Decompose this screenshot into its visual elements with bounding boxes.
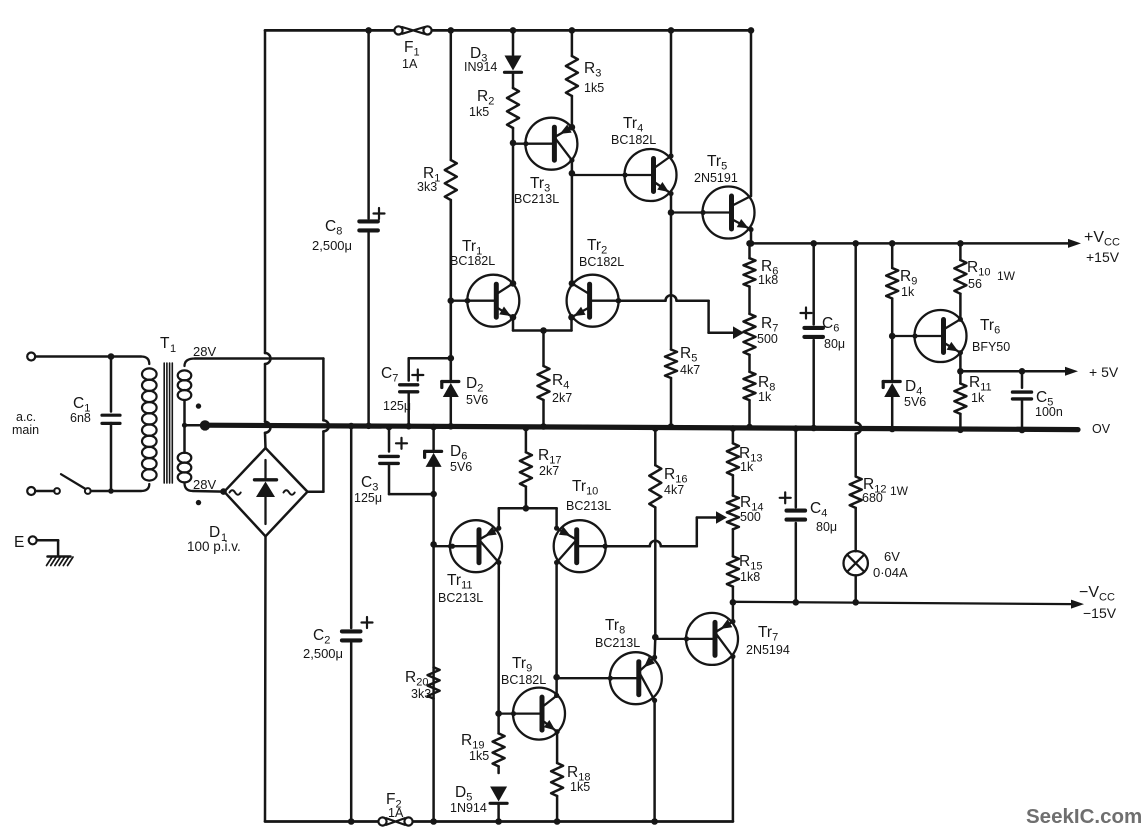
svg-text:2N5191: 2N5191 [694, 171, 738, 185]
svg-text:100n: 100n [1035, 405, 1063, 419]
svg-text:T: T [160, 335, 170, 352]
svg-text:4k7: 4k7 [680, 363, 700, 377]
svg-text:6n8: 6n8 [70, 411, 91, 425]
svg-text:1N914: 1N914 [450, 801, 487, 815]
svg-text:E: E [14, 534, 24, 551]
svg-text:5V6: 5V6 [450, 460, 472, 474]
svg-text:BC182L: BC182L [579, 255, 624, 269]
svg-text:BC213L: BC213L [514, 192, 559, 206]
svg-text:+15V: +15V [1086, 249, 1120, 265]
svg-text:IN914: IN914 [464, 60, 497, 74]
svg-text:500: 500 [740, 510, 761, 524]
svg-text:2,500μ: 2,500μ [303, 646, 343, 661]
svg-text:3k3: 3k3 [417, 180, 437, 194]
svg-text:−15V: −15V [1083, 605, 1117, 621]
svg-text:28V: 28V [193, 477, 216, 492]
svg-text:6V: 6V [884, 549, 900, 564]
svg-text:1k8: 1k8 [740, 570, 760, 584]
svg-text:BFY50: BFY50 [972, 340, 1010, 354]
svg-text:1k5: 1k5 [469, 749, 489, 763]
svg-text:+ 5V: + 5V [1089, 364, 1119, 380]
svg-text:1k5: 1k5 [570, 780, 590, 794]
svg-text:2k7: 2k7 [539, 464, 559, 478]
svg-text:125μ: 125μ [383, 399, 411, 413]
svg-text:OV: OV [1092, 422, 1111, 436]
svg-text:1W: 1W [997, 269, 1016, 283]
svg-text:1A: 1A [388, 806, 404, 820]
svg-text:3k3: 3k3 [411, 687, 431, 701]
svg-text:5V6: 5V6 [466, 393, 488, 407]
svg-text:2N5194: 2N5194 [746, 643, 790, 657]
svg-text:1k5: 1k5 [584, 81, 604, 95]
svg-text:1k: 1k [740, 460, 754, 474]
svg-text:56: 56 [968, 277, 982, 291]
svg-text:28V: 28V [193, 344, 216, 359]
svg-text:a.c.: a.c. [16, 410, 36, 424]
svg-text:1W: 1W [890, 484, 909, 498]
svg-text:BC182L: BC182L [611, 133, 656, 147]
svg-text:BC182L: BC182L [501, 673, 546, 687]
svg-text:2k7: 2k7 [552, 391, 572, 405]
svg-text:5V6: 5V6 [904, 395, 926, 409]
svg-text:1A: 1A [402, 57, 418, 71]
svg-text:1k8: 1k8 [758, 273, 778, 287]
svg-text:1k: 1k [758, 390, 772, 404]
svg-text:1k: 1k [901, 285, 915, 299]
svg-text:BC213L: BC213L [438, 591, 483, 605]
svg-text:main: main [12, 423, 39, 437]
svg-text:BC182L: BC182L [450, 254, 495, 268]
svg-text:BC213L: BC213L [566, 499, 611, 513]
svg-text:500: 500 [757, 332, 778, 346]
svg-text:80μ: 80μ [816, 520, 837, 534]
svg-text:SeekIC.com: SeekIC.com [1026, 805, 1142, 828]
svg-text:0·04A: 0·04A [873, 565, 908, 580]
svg-text:4k7: 4k7 [664, 483, 684, 497]
svg-text:125μ: 125μ [354, 491, 382, 505]
svg-text:2,500μ: 2,500μ [312, 238, 352, 253]
svg-text:1k: 1k [971, 391, 985, 405]
svg-text:BC213L: BC213L [595, 636, 640, 650]
svg-text:1k5: 1k5 [469, 105, 489, 119]
svg-text:80μ: 80μ [824, 337, 845, 351]
svg-text:1: 1 [170, 343, 176, 355]
svg-text:100 p.i.v.: 100 p.i.v. [187, 539, 241, 554]
svg-text:680: 680 [862, 491, 883, 505]
